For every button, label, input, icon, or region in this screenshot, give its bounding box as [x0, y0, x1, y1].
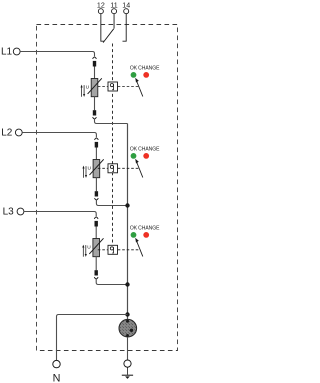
- svg-text:U: U: [87, 245, 91, 251]
- svg-text:U: U: [86, 85, 90, 91]
- svg-text:U: U: [88, 166, 92, 172]
- svg-text:OK: OK: [130, 226, 138, 232]
- svg-text:OK: OK: [130, 147, 138, 153]
- svg-text:N: N: [53, 373, 61, 383]
- svg-text:CHANGE: CHANGE: [138, 226, 160, 232]
- svg-text:11: 11: [110, 2, 117, 10]
- svg-text:L3: L3: [3, 207, 15, 218]
- svg-text:L2: L2: [1, 128, 13, 139]
- svg-text:OK: OK: [130, 66, 138, 72]
- svg-text:CHANGE: CHANGE: [138, 147, 160, 153]
- svg-text:CHANGE: CHANGE: [138, 66, 160, 72]
- svg-text:14: 14: [122, 2, 130, 10]
- svg-text:L1: L1: [1, 47, 13, 58]
- svg-text:12: 12: [97, 2, 105, 10]
